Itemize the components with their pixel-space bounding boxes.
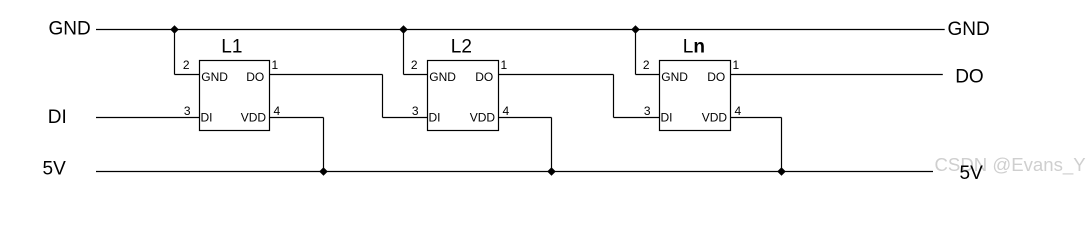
svg-text:2: 2 bbox=[411, 58, 418, 72]
svg-text:4: 4 bbox=[735, 104, 742, 118]
svg-text:3: 3 bbox=[184, 104, 191, 118]
svg-text:DI: DI bbox=[661, 110, 673, 124]
svg-text:5V: 5V bbox=[960, 163, 984, 183]
svg-text:1: 1 bbox=[733, 58, 740, 72]
svg-text:GND: GND bbox=[429, 70, 456, 84]
svg-text:CSDN @Evans_Y: CSDN @Evans_Y bbox=[935, 154, 1086, 176]
svg-text:4: 4 bbox=[503, 104, 510, 118]
junction dot on 5V rail below L2 bbox=[547, 167, 556, 176]
svg-text:VDD: VDD bbox=[702, 110, 728, 124]
wire 5V rail bbox=[96, 171, 933, 173]
wire GND rail to L1 pin 2 bbox=[175, 30, 200, 75]
svg-text:L2: L2 bbox=[451, 37, 472, 58]
svg-text:2: 2 bbox=[643, 58, 650, 72]
svg-text:1: 1 bbox=[501, 58, 508, 72]
junction dot on GND rail above Ln bbox=[631, 25, 640, 34]
junction dot on 5V rail below L1 bbox=[319, 167, 328, 176]
svg-text:Ln: Ln bbox=[683, 37, 705, 58]
wire DO output (Ln pin 1 to right edge) bbox=[731, 74, 943, 76]
svg-text:VDD: VDD bbox=[241, 110, 267, 124]
svg-text:DO: DO bbox=[955, 66, 984, 87]
wire L1 DO (pin 1) to next stage DI (pin 3) bbox=[270, 75, 428, 118]
svg-text:L1: L1 bbox=[221, 37, 242, 58]
IC L1 (LED driver) bbox=[200, 61, 270, 131]
svg-text:GND: GND bbox=[201, 70, 228, 84]
svg-text:DO: DO bbox=[707, 70, 725, 84]
svg-text:2: 2 bbox=[183, 58, 190, 72]
junction dot on GND rail above L2 bbox=[399, 25, 408, 34]
svg-text:DO: DO bbox=[475, 70, 493, 84]
svg-text:4: 4 bbox=[274, 104, 281, 118]
IC Ln (LED driver) bbox=[660, 61, 731, 131]
svg-text:3: 3 bbox=[644, 104, 651, 118]
junction dot on GND rail above L1 bbox=[170, 25, 179, 34]
svg-text:5V: 5V bbox=[43, 159, 67, 180]
svg-text:DI: DI bbox=[48, 107, 67, 128]
svg-text:DO: DO bbox=[246, 70, 264, 84]
svg-text:VDD: VDD bbox=[470, 110, 496, 124]
wire GND rail to Ln pin 2 bbox=[636, 30, 660, 75]
wire Ln VDD (pin 4) to 5V rail bbox=[731, 118, 782, 172]
svg-text:GND: GND bbox=[49, 19, 91, 40]
wire GND rail to L2 pin 2 bbox=[404, 30, 428, 75]
wire DI rail bbox=[96, 117, 200, 119]
wire GND rail bbox=[96, 29, 945, 31]
wire L1 VDD (pin 4) to 5V rail bbox=[270, 118, 324, 172]
svg-text:GND: GND bbox=[661, 70, 688, 84]
svg-text:GND: GND bbox=[948, 19, 990, 40]
wire L2 VDD (pin 4) to 5V rail bbox=[499, 118, 552, 172]
svg-text:1: 1 bbox=[272, 58, 279, 72]
svg-text:DI: DI bbox=[429, 110, 441, 124]
svg-text:DI: DI bbox=[201, 110, 213, 124]
svg-text:3: 3 bbox=[412, 104, 419, 118]
junction dot on 5V rail below Ln bbox=[777, 167, 786, 176]
wire L2 DO (pin 1) to next stage DI (pin 3) bbox=[499, 75, 660, 118]
IC L2 (LED driver) bbox=[428, 61, 499, 131]
